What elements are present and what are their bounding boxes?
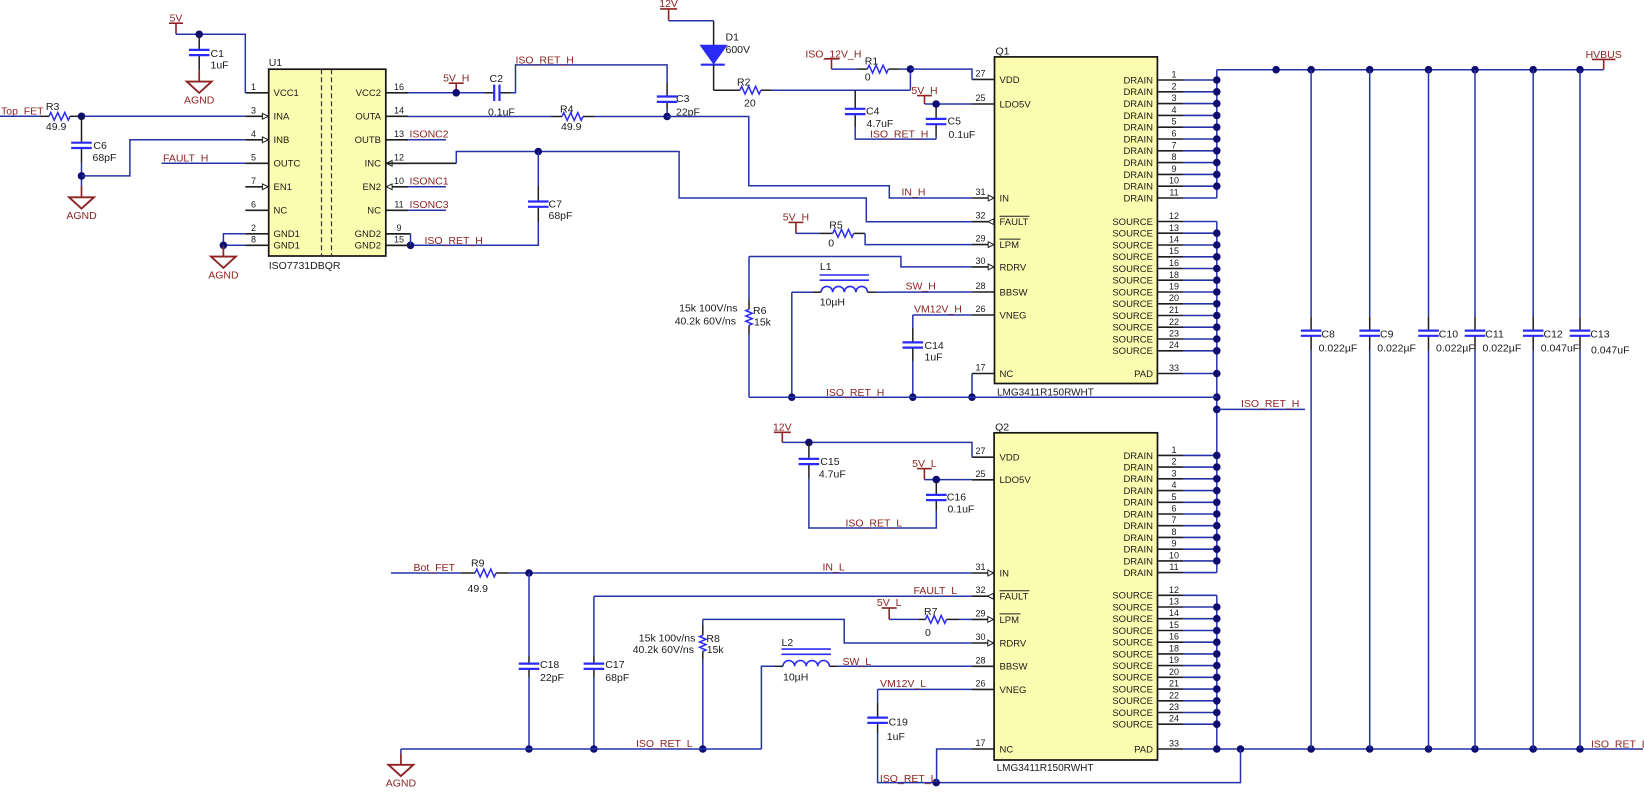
svg-text:DRAIN: DRAIN [1123,75,1153,86]
svg-text:SOURCE: SOURCE [1112,708,1153,719]
svg-text:8: 8 [1171,527,1176,537]
svg-text:22: 22 [1169,690,1179,700]
svg-text:2: 2 [1171,457,1176,467]
svg-text:15: 15 [1169,620,1179,630]
svg-text:SOURCE: SOURCE [1112,685,1153,696]
svg-text:11: 11 [394,199,403,209]
svg-text:ISO_RET_H: ISO_RET_H [425,235,483,247]
svg-text:L2: L2 [782,637,794,649]
svg-text:40.2k 60V/ns: 40.2k 60V/ns [675,316,736,328]
svg-text:24: 24 [1169,714,1179,724]
svg-text:17: 17 [975,738,985,748]
svg-text:25: 25 [975,469,985,479]
svg-text:BBSW: BBSW [1000,662,1028,673]
svg-text:IN_L: IN_L [823,562,845,574]
svg-text:68pF: 68pF [93,152,117,164]
svg-text:40.2k 60V/ns: 40.2k 60V/ns [633,644,694,656]
svg-text:SOURCE: SOURCE [1112,264,1153,275]
svg-text:23: 23 [1169,329,1179,339]
svg-text:FAULT_L: FAULT_L [914,585,958,597]
svg-text:GND2: GND2 [355,241,381,252]
svg-text:VNEG: VNEG [1000,310,1027,321]
svg-text:ISO7731DBQR: ISO7731DBQR [269,260,341,272]
svg-text:0: 0 [865,71,871,83]
svg-text:DRAIN: DRAIN [1123,111,1153,122]
svg-text:5: 5 [1171,492,1176,502]
svg-text:ISO_RET_L: ISO_RET_L [846,518,903,530]
svg-text:1: 1 [1171,70,1176,80]
svg-text:7: 7 [1171,515,1176,525]
svg-text:R2: R2 [737,76,751,88]
svg-text:R6: R6 [753,305,767,317]
svg-text:IN_H: IN_H [902,187,926,199]
svg-text:R7: R7 [924,606,938,618]
svg-text:4: 4 [1171,105,1176,115]
svg-text:VNEG: VNEG [1000,685,1027,696]
svg-text:DRAIN: DRAIN [1123,556,1153,567]
svg-text:ISO_RET_H: ISO_RET_H [826,387,884,399]
svg-text:Bot_FET: Bot_FET [414,562,456,574]
svg-text:1uF: 1uF [925,352,943,364]
svg-text:18: 18 [1169,270,1179,280]
svg-text:ISO_RET_L: ISO_RET_L [636,738,693,750]
svg-text:17: 17 [975,363,985,373]
svg-text:ISO_RET_H: ISO_RET_H [1241,398,1299,410]
svg-text:1uF: 1uF [887,731,905,743]
svg-text:30: 30 [975,256,985,266]
svg-text:22pF: 22pF [540,672,564,684]
svg-text:0.047uF: 0.047uF [1541,342,1580,354]
svg-text:FAULT: FAULT [1000,217,1029,228]
svg-text:BBSW: BBSW [1000,287,1028,298]
svg-text:DRAIN: DRAIN [1123,451,1153,462]
svg-text:SOURCE: SOURCE [1112,626,1153,637]
svg-text:C11: C11 [1485,329,1504,341]
svg-text:20: 20 [744,98,756,110]
svg-text:PAD: PAD [1134,369,1153,380]
svg-text:33: 33 [1169,363,1179,373]
svg-text:DRAIN: DRAIN [1123,99,1153,110]
svg-text:15k: 15k [707,644,725,656]
svg-text:DRAIN: DRAIN [1123,193,1153,204]
svg-text:C12: C12 [1544,329,1563,341]
svg-text:NC: NC [367,206,381,217]
svg-text:DRAIN: DRAIN [1123,158,1153,169]
svg-text:SW_L: SW_L [843,656,872,668]
svg-text:SOURCE: SOURCE [1112,720,1153,731]
svg-text:15: 15 [394,234,404,244]
svg-text:DRAIN: DRAIN [1123,87,1153,98]
svg-text:DRAIN: DRAIN [1123,170,1153,181]
svg-text:0.022µF: 0.022µF [1436,342,1475,354]
svg-text:14: 14 [1169,235,1179,245]
svg-text:SOURCE: SOURCE [1112,299,1153,310]
svg-text:DRAIN: DRAIN [1123,134,1153,145]
svg-text:GND2: GND2 [355,229,381,240]
svg-text:28: 28 [975,281,985,291]
svg-text:26: 26 [975,678,985,688]
svg-text:DRAIN: DRAIN [1123,521,1153,532]
svg-text:8: 8 [1171,152,1176,162]
svg-text:10: 10 [1169,550,1179,560]
svg-text:23: 23 [1169,702,1179,712]
svg-text:R5: R5 [829,220,843,232]
svg-text:FAULT: FAULT [1000,592,1029,603]
svg-text:EN1: EN1 [274,182,292,193]
svg-text:49.9: 49.9 [468,583,489,595]
svg-text:31: 31 [975,562,985,572]
svg-text:C17: C17 [605,659,624,671]
svg-text:C15: C15 [820,456,839,468]
svg-text:DRAIN: DRAIN [1123,545,1153,556]
svg-text:C14: C14 [925,340,944,352]
svg-text:DRAIN: DRAIN [1123,182,1153,193]
svg-text:2: 2 [251,223,256,233]
svg-text:14: 14 [394,105,404,115]
svg-text:C8: C8 [1321,329,1335,341]
svg-text:12: 12 [1169,585,1179,595]
svg-text:C9: C9 [1380,329,1394,341]
svg-text:C5: C5 [948,116,962,128]
svg-text:Q2: Q2 [995,422,1009,434]
svg-text:OUTC: OUTC [274,159,301,170]
svg-text:7: 7 [1171,140,1176,150]
svg-text:15k 100v/ns: 15k 100v/ns [639,633,696,645]
svg-text:ISONC1: ISONC1 [410,176,449,188]
svg-text:IN: IN [1000,568,1010,579]
svg-text:24: 24 [1169,340,1179,350]
svg-text:ISO_RET_L: ISO_RET_L [1591,738,1644,750]
svg-text:28: 28 [975,655,985,665]
svg-text:26: 26 [975,304,985,314]
svg-text:SW_H: SW_H [906,280,936,292]
svg-text:DRAIN: DRAIN [1123,474,1153,485]
svg-text:AGND: AGND [208,269,239,281]
svg-text:R4: R4 [560,104,574,116]
svg-text:31: 31 [975,187,985,197]
svg-text:AGND: AGND [184,94,215,106]
svg-text:DRAIN: DRAIN [1123,146,1153,157]
svg-text:D1: D1 [726,32,740,44]
svg-text:13: 13 [394,129,404,139]
svg-text:GND1: GND1 [274,229,300,240]
svg-text:ISO_RET_H: ISO_RET_H [516,54,574,66]
svg-text:21: 21 [1169,305,1179,315]
svg-text:R3: R3 [46,101,60,113]
svg-text:VM12V_L: VM12V_L [880,678,926,690]
svg-text:SOURCE: SOURCE [1112,661,1153,672]
svg-text:IN: IN [1000,193,1010,204]
svg-text:3: 3 [251,105,256,115]
svg-text:SOURCE: SOURCE [1112,229,1153,240]
svg-text:49.9: 49.9 [46,121,67,133]
svg-text:SOURCE: SOURCE [1112,287,1153,298]
svg-text:13: 13 [1169,223,1179,233]
svg-text:7: 7 [251,176,256,186]
svg-text:LPM: LPM [1000,615,1020,626]
svg-text:SOURCE: SOURCE [1112,334,1153,345]
svg-text:SOURCE: SOURCE [1112,240,1153,251]
svg-text:LMG3411R150RWHT: LMG3411R150RWHT [997,763,1094,774]
svg-text:6: 6 [1171,129,1176,139]
svg-text:SOURCE: SOURCE [1112,696,1153,707]
svg-text:LPM: LPM [1000,240,1020,251]
svg-text:SOURCE: SOURCE [1112,323,1153,334]
svg-text:29: 29 [975,234,985,244]
svg-text:27: 27 [975,68,985,78]
svg-text:10µH: 10µH [783,672,808,684]
svg-text:INA: INA [274,112,291,123]
svg-text:DRAIN: DRAIN [1123,568,1153,579]
svg-text:0.1uF: 0.1uF [948,503,975,515]
svg-text:15: 15 [1169,246,1179,256]
svg-text:VDD: VDD [1000,75,1020,86]
svg-text:DRAIN: DRAIN [1123,486,1153,497]
svg-text:OUTA: OUTA [355,112,381,123]
svg-text:SOURCE: SOURCE [1112,649,1153,660]
svg-text:8: 8 [251,234,256,244]
svg-text:R9: R9 [471,557,485,569]
svg-text:INC: INC [365,159,382,170]
svg-text:C7: C7 [549,199,563,211]
svg-text:68pF: 68pF [605,672,629,684]
svg-text:PAD: PAD [1134,744,1153,755]
svg-text:21: 21 [1169,679,1179,689]
svg-text:U1: U1 [269,57,283,69]
svg-text:EN2: EN2 [363,182,381,193]
svg-text:DRAIN: DRAIN [1123,533,1153,544]
svg-text:9: 9 [396,223,401,233]
svg-text:3: 3 [1171,93,1176,103]
svg-text:NC: NC [1000,369,1014,380]
svg-text:C2: C2 [490,73,504,85]
svg-text:DRAIN: DRAIN [1123,498,1153,509]
svg-text:INB: INB [274,135,290,146]
svg-text:12: 12 [394,152,404,162]
svg-text:22: 22 [1169,317,1179,327]
svg-text:0.1uF: 0.1uF [949,129,976,141]
svg-text:5: 5 [251,152,256,162]
svg-text:C19: C19 [889,717,908,729]
svg-text:SOURCE: SOURCE [1112,276,1153,287]
svg-text:11: 11 [1169,562,1178,572]
svg-text:DRAIN: DRAIN [1123,509,1153,520]
svg-text:68pF: 68pF [549,210,573,222]
svg-text:ISO_RET_L: ISO_RET_L [880,773,937,785]
svg-text:C13: C13 [1590,329,1609,341]
svg-text:30: 30 [975,632,985,642]
svg-text:9: 9 [1171,539,1176,549]
svg-text:SOURCE: SOURCE [1112,252,1153,263]
svg-text:18: 18 [1169,643,1179,653]
svg-text:19: 19 [1169,282,1179,292]
svg-text:16: 16 [1169,258,1179,268]
svg-text:13: 13 [1169,597,1179,607]
svg-text:SOURCE: SOURCE [1112,217,1153,228]
svg-text:SOURCE: SOURCE [1112,614,1153,625]
svg-text:32: 32 [975,585,985,595]
svg-text:DRAIN: DRAIN [1123,463,1153,474]
svg-text:10µH: 10µH [820,296,845,308]
svg-text:0: 0 [828,238,834,250]
svg-text:VM12V_H: VM12V_H [914,304,962,316]
svg-text:6: 6 [1171,504,1176,514]
svg-text:9: 9 [1171,164,1176,174]
svg-text:R1: R1 [865,55,879,67]
svg-text:15k 100V/ns: 15k 100V/ns [679,303,737,315]
svg-text:AGND: AGND [386,778,417,787]
svg-text:16: 16 [1169,632,1179,642]
svg-text:SOURCE: SOURCE [1112,311,1153,322]
svg-text:OUTB: OUTB [355,135,381,146]
svg-text:4.7uF: 4.7uF [819,468,846,480]
svg-text:1: 1 [1171,445,1176,455]
svg-text:33: 33 [1169,739,1179,749]
svg-text:19: 19 [1169,655,1179,665]
svg-text:ISONC3: ISONC3 [410,199,449,211]
svg-text:16: 16 [394,82,404,92]
svg-text:SOURCE: SOURCE [1112,591,1153,602]
svg-text:20: 20 [1169,293,1179,303]
svg-text:ISONC2: ISONC2 [410,129,449,141]
svg-text:0: 0 [925,627,931,639]
svg-text:0.022µF: 0.022µF [1377,342,1416,354]
svg-text:L1: L1 [820,261,832,273]
svg-text:6: 6 [251,199,256,209]
svg-text:GND1: GND1 [274,241,300,252]
svg-text:C10: C10 [1439,329,1458,341]
svg-text:20: 20 [1169,667,1179,677]
svg-text:NC: NC [1000,744,1014,755]
svg-text:SOURCE: SOURCE [1112,673,1153,684]
svg-text:C18: C18 [540,659,559,671]
svg-text:3: 3 [1171,468,1176,478]
svg-text:32: 32 [975,211,985,221]
svg-text:15k: 15k [754,317,772,329]
svg-text:NC: NC [274,206,288,217]
svg-text:VCC2: VCC2 [356,88,381,99]
svg-text:0.047uF: 0.047uF [1591,345,1630,357]
svg-text:1: 1 [251,82,256,92]
svg-text:5: 5 [1171,117,1176,127]
svg-text:4: 4 [251,129,256,139]
svg-text:C3: C3 [676,93,690,105]
svg-text:SOURCE: SOURCE [1112,638,1153,649]
svg-text:C4: C4 [866,106,880,118]
svg-text:11: 11 [1169,188,1178,198]
svg-text:VCC1: VCC1 [274,88,299,99]
svg-text:LDO5V: LDO5V [1000,475,1032,486]
svg-text:0.022µF: 0.022µF [1483,342,1522,354]
svg-text:C16: C16 [947,491,966,503]
svg-text:0.022µF: 0.022µF [1319,342,1358,354]
svg-text:SOURCE: SOURCE [1112,346,1153,357]
svg-text:C6: C6 [93,140,107,152]
svg-text:10: 10 [1169,176,1179,186]
svg-text:LDO5V: LDO5V [1000,99,1032,110]
svg-text:ISO_RET_H: ISO_RET_H [870,128,928,140]
svg-text:DRAIN: DRAIN [1123,123,1153,134]
svg-text:29: 29 [975,608,985,618]
svg-text:12: 12 [1169,211,1179,221]
svg-text:SOURCE: SOURCE [1112,602,1153,613]
svg-text:AGND: AGND [66,210,97,222]
svg-text:2: 2 [1171,81,1176,91]
svg-text:1uF: 1uF [211,60,229,72]
svg-text:Q1: Q1 [996,46,1010,58]
svg-text:25: 25 [975,93,985,103]
svg-text:10: 10 [394,176,404,186]
svg-text:49.9: 49.9 [561,121,582,133]
svg-text:600V: 600V [726,44,751,56]
svg-text:14: 14 [1169,608,1179,618]
svg-text:27: 27 [975,446,985,456]
svg-text:RDRV: RDRV [1000,262,1027,273]
svg-text:VDD: VDD [1000,453,1020,464]
svg-text:RDRV: RDRV [1000,638,1027,649]
svg-text:C1: C1 [211,48,225,60]
svg-text:4: 4 [1171,480,1176,490]
